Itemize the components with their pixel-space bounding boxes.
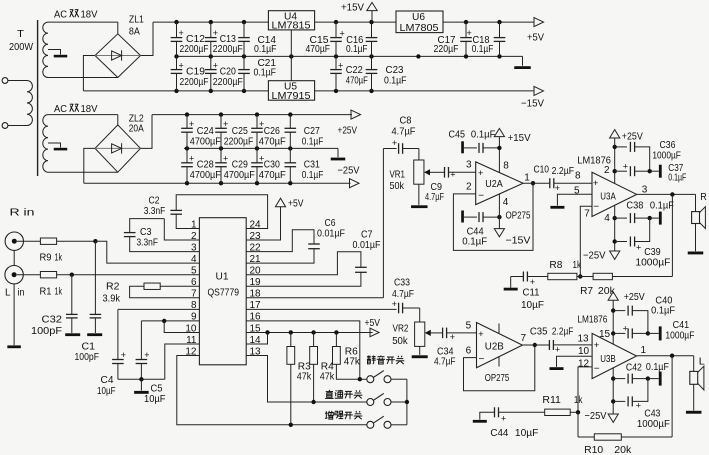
wire U4 out to U6 in — [315, 21, 396, 23]
svg-text:+: + — [340, 29, 345, 39]
node U3B out/R10 — [670, 354, 674, 358]
node top rail / C13 — [209, 20, 213, 24]
node mute/R6/pin16 — [358, 377, 362, 381]
svg-text:50k: 50k — [392, 335, 408, 347]
node C41 out — [646, 331, 650, 335]
svg-text:+5V: +5V — [527, 32, 544, 44]
svg-text:0.1µF: 0.1µF — [471, 129, 496, 141]
svg-text:C45: C45 — [449, 129, 466, 141]
node R4/direct row — [311, 400, 315, 404]
svg-text:0.1µF: 0.1µF — [646, 361, 669, 373]
node top rail / C14 — [242, 20, 246, 24]
power +15V (triangle) — [341, 2, 377, 23]
ground (secondary 2 center tap) — [54, 148, 68, 151]
svg-text:20A: 20A — [129, 123, 144, 135]
node mid2/C26 — [255, 146, 259, 150]
node mid2/C25 — [219, 146, 223, 150]
svg-text:R2: R2 — [106, 281, 120, 293]
svg-text:100pF: 100pF — [75, 351, 100, 363]
ground (C38) — [650, 212, 662, 225]
svg-text:+: + — [189, 119, 194, 129]
svg-text:+5V: +5V — [288, 198, 304, 210]
node pin2/C37 — [613, 169, 617, 173]
capacitor C21 0.1uF — [238, 56, 276, 91]
capacitor C35 2.2uF — [530, 326, 592, 355]
port +5V arrow — [527, 18, 544, 44]
wire U2A out — [523, 182, 550, 184]
svg-text:47k: 47k — [320, 371, 335, 383]
wire R9 to pin 4 — [95, 241, 199, 263]
svg-text:0.1µF: 0.1µF — [302, 136, 324, 148]
node -25/C31 — [288, 181, 292, 185]
node U2A output — [531, 181, 535, 185]
capacitor C30 470uF — [251, 148, 286, 183]
svg-text:0.1µF: 0.1µF — [462, 236, 487, 248]
svg-text:VR1: VR1 — [390, 169, 406, 181]
pin number 4 (U3A) — [604, 213, 610, 224]
potentiometer VR1 50k — [390, 149, 445, 193]
svg-text:−15V: −15V — [521, 98, 544, 110]
power +25V (U3A pin 2) — [610, 130, 643, 184]
ground (VR1) — [411, 184, 428, 208]
svg-text:U2B: U2B — [485, 341, 504, 353]
wire ZL1 - output to bottom rail — [83, 56, 95, 91]
svg-text:4: 4 — [604, 213, 610, 224]
node C37 out — [648, 169, 652, 173]
node pin2/C36 — [613, 145, 617, 149]
capacitor C19 2200uF — [171, 56, 209, 91]
capacitor C20 2200uF — [205, 56, 243, 91]
pin number 5 (U2B) — [466, 321, 472, 332]
svg-text:470µF: 470µF — [259, 169, 286, 181]
pin number 18 (U1 right) — [250, 289, 262, 300]
ground (mid rail 2) — [331, 148, 346, 160]
ground (C37) — [650, 165, 662, 178]
svg-text:4.7µF: 4.7µF — [434, 356, 456, 368]
pin number 13 (U3B) — [578, 334, 590, 345]
svg-text:LM7915: LM7915 — [272, 90, 311, 102]
resistor R11 1k — [542, 394, 583, 416]
svg-text:50k: 50k — [390, 180, 405, 192]
svg-text:AC: AC — [54, 9, 67, 21]
node C44/pin4 — [497, 215, 501, 219]
svg-text:2: 2 — [466, 182, 472, 193]
svg-text:+: + — [478, 168, 484, 179]
svg-text:−25V: −25V — [338, 165, 360, 177]
node C45/pin8 — [497, 146, 501, 150]
pin number 5 (U1 left) — [191, 266, 197, 277]
pin number 12 (U1 left) — [185, 346, 197, 357]
svg-text:1k: 1k — [573, 259, 582, 271]
svg-text:470µF: 470µF — [306, 43, 331, 55]
wire U2B out — [522, 344, 549, 346]
svg-text:LM7815: LM7815 — [272, 20, 311, 32]
label direct switch — [325, 390, 362, 399]
IC U1 QS7779 body — [199, 218, 246, 365]
svg-text:R1: R1 — [40, 286, 52, 298]
label OP275 (U2B) — [485, 372, 510, 384]
ground (input jacks) — [7, 345, 21, 348]
capacitor C34 4.7uF — [434, 328, 477, 368]
svg-text:+25V: +25V — [622, 130, 643, 142]
power +25V (U3B pin 15) — [608, 291, 645, 344]
wire U3A pin7 feedback stub — [580, 206, 592, 276]
svg-text:2.2µF: 2.2µF — [552, 165, 575, 177]
wire U4 gnd to U5 gnd — [290, 30, 292, 81]
ground (U3B pin10) — [550, 367, 564, 370]
svg-text:3: 3 — [642, 185, 648, 196]
capacitor C10 2.2uF — [534, 164, 593, 194]
bridge rectifier ZL1 — [95, 34, 141, 78]
svg-text:470µF: 470µF — [259, 136, 286, 148]
node +15V rail / C16 — [369, 20, 373, 24]
svg-text:7: 7 — [584, 209, 590, 220]
ground (secondary 1 center tap) — [54, 55, 68, 58]
svg-text:+: + — [450, 332, 455, 342]
svg-text:−: − — [478, 191, 484, 202]
svg-text:5: 5 — [466, 321, 472, 332]
svg-text:−: − — [593, 202, 599, 213]
pin number 4 (U2A) — [503, 197, 509, 208]
wire sec1 top to bridge ZL1 — [48, 22, 118, 34]
node mid/C16 — [369, 54, 373, 58]
node mid/C13 — [209, 54, 213, 58]
pin number 1 (U2A) — [524, 173, 530, 184]
svg-text:R8: R8 — [549, 259, 562, 271]
resistor R7 20k — [580, 194, 672, 297]
svg-text:2200µF: 2200µF — [224, 136, 254, 148]
label AC dual 18V (sec 1) — [54, 9, 98, 21]
svg-text:0.1µF: 0.1µF — [650, 200, 674, 212]
capacitor C23 0.1uF — [366, 56, 407, 91]
wire ground mid rail — [177, 55, 523, 57]
pin number 4 (U1 left) — [191, 254, 197, 265]
svg-text:1: 1 — [524, 173, 530, 184]
svg-text:R10: R10 — [584, 444, 603, 455]
node mid/U4-U5 — [289, 54, 293, 58]
svg-text:1000µF: 1000µF — [637, 418, 670, 430]
svg-text:+: + — [179, 28, 184, 38]
svg-text:C42: C42 — [626, 362, 642, 374]
svg-text:+: + — [467, 28, 472, 38]
capacitor C27 0.1uF — [285, 115, 324, 149]
resistor R4 47k — [310, 332, 335, 402]
label mute switch — [367, 355, 404, 364]
wire pin 16 to mute switch — [246, 321, 360, 379]
svg-text:7: 7 — [521, 333, 527, 344]
node mid/U6 — [416, 54, 420, 58]
svg-text:C44: C44 — [490, 427, 508, 439]
capacitor C5 10uF — [136, 321, 166, 405]
label ZL2 20A — [129, 113, 144, 135]
capacitor C33 4.7uF — [392, 277, 420, 314]
svg-text:2200µF: 2200µF — [213, 76, 243, 88]
node top rail / C12 — [174, 20, 178, 24]
svg-text:13: 13 — [578, 334, 590, 345]
wire U3B pin10 to ground — [557, 356, 593, 367]
svg-text:+: + — [213, 60, 218, 70]
node C42 out — [646, 376, 650, 380]
svg-text:470µF: 470µF — [346, 75, 368, 87]
node mid2/C27 — [288, 146, 292, 150]
transformer T secondary 2 winding — [43, 115, 48, 173]
svg-text:−15V: −15V — [506, 234, 531, 246]
svg-text:2.2µF: 2.2µF — [552, 326, 574, 338]
svg-text:−: − — [594, 364, 600, 375]
power -15V (U2A pin 4) — [494, 194, 530, 246]
ground (C4 C5) — [134, 379, 149, 394]
svg-text:8A: 8A — [129, 26, 140, 38]
pin number 7 (U2B) — [521, 333, 527, 344]
pin number 17 (U1 right) — [250, 300, 262, 311]
capacitor C40 0.1uF — [613, 295, 675, 334]
svg-text:+: + — [623, 162, 628, 172]
capacitor C31 0.1uF — [285, 148, 324, 183]
svg-text:0.1µF: 0.1µF — [668, 171, 686, 183]
pin number 8 (U2A) — [503, 161, 509, 172]
svg-text:U2A: U2A — [485, 178, 503, 190]
capacitor C22 470uF — [330, 56, 368, 91]
svg-text:3.3nF: 3.3nF — [137, 237, 159, 249]
node pin4b/C42 — [611, 376, 615, 380]
svg-text:+: + — [623, 324, 628, 334]
label OP275 (U2A) — [506, 210, 531, 222]
wire -V unregulated rail (bottom) — [83, 90, 268, 92]
svg-text:R7: R7 — [580, 285, 593, 297]
pin number 7 (U3A) — [584, 209, 590, 220]
svg-text:0.01µF: 0.01µF — [317, 228, 345, 240]
svg-text:1000µF: 1000µF — [635, 257, 670, 269]
node pin4b/C43 — [611, 399, 615, 403]
svg-text:L: L — [5, 287, 11, 299]
capacitor C28 4700uF — [181, 148, 221, 183]
pin number 8 (U3A) — [575, 171, 581, 182]
capacitor C44 10uF — [490, 407, 544, 439]
wire C3 to pin 2 — [164, 219, 199, 240]
svg-text:+: + — [223, 119, 228, 129]
svg-text:+: + — [555, 345, 560, 355]
label LM1876 (U3B) — [577, 314, 607, 326]
node -25/C29 — [219, 181, 223, 185]
svg-text:+: + — [530, 277, 535, 287]
pin number 5 (U3A) — [574, 186, 580, 197]
ground (C32) — [65, 333, 80, 336]
svg-text:T: T — [17, 28, 25, 40]
node R3/boost row — [289, 423, 293, 427]
ground (C11) — [504, 277, 518, 291]
ground (C44 10uF) — [473, 412, 495, 422]
pin number 9 (U1 left) — [191, 312, 197, 323]
svg-text:4.7µF: 4.7µF — [392, 288, 414, 300]
node -25/C30 — [255, 181, 259, 185]
pin number 12 (U3B) — [578, 359, 590, 370]
node -15V/C23 — [369, 89, 373, 93]
switch mute switch — [367, 371, 407, 383]
wire pin 15 +5V rail — [246, 331, 372, 333]
regulator U4 LM7815 — [268, 11, 314, 32]
svg-text:1000µF: 1000µF — [665, 329, 694, 341]
node +25/C25 — [219, 112, 223, 116]
svg-text:−25V: −25V — [583, 249, 606, 261]
capacitor C17 220uF — [434, 22, 472, 56]
svg-text:47k: 47k — [344, 356, 361, 368]
svg-text:3.3nF: 3.3nF — [144, 205, 166, 217]
wire sec2 top to bridge ZL2 — [48, 115, 118, 125]
switch direct switch — [367, 393, 407, 405]
capacitor C43 1000uF — [613, 379, 670, 430]
node bot/C19 — [174, 89, 178, 93]
node rail/R6 — [334, 330, 338, 334]
svg-text:20k: 20k — [598, 285, 616, 297]
node rail/pin14 — [265, 330, 269, 334]
op-amp U2B — [477, 323, 523, 368]
pin number 11 (U1 left) — [186, 335, 197, 346]
capacitor C12 2200uF — [171, 22, 209, 56]
resistor R3 47k — [287, 332, 312, 424]
svg-text:+: + — [189, 154, 194, 164]
svg-text:10µF: 10µF — [144, 393, 166, 405]
speaker L — [686, 356, 705, 414]
wire pin 10 jog — [164, 321, 199, 333]
svg-text:+: + — [121, 350, 126, 360]
pin number 3 (U3A) — [642, 185, 648, 196]
svg-text:C32: C32 — [42, 314, 63, 326]
wire +V unregulated rail (top) — [153, 21, 268, 23]
svg-text:R in: R in — [10, 207, 35, 219]
svg-text:LM1876: LM1876 — [577, 314, 607, 326]
svg-text:in: in — [18, 287, 25, 299]
node mid/C12 — [174, 54, 178, 58]
wire switch common bus — [406, 379, 408, 425]
svg-text:2200µF: 2200µF — [213, 43, 243, 55]
resistor R1 1k — [17, 272, 200, 298]
resistor R10 20k — [578, 356, 672, 455]
svg-text:18V: 18V — [81, 9, 98, 21]
svg-text:1000µF: 1000µF — [652, 150, 681, 162]
node +25/C27 — [288, 112, 292, 116]
wire U2A feedback — [453, 183, 533, 250]
node R8/R7/pin7 — [577, 274, 593, 278]
amplifier U3A LM1876 — [592, 172, 637, 216]
svg-text:8: 8 — [503, 161, 509, 172]
node switch bus — [405, 400, 409, 404]
wire sec1 bottom to bridge ZL1 — [48, 77, 118, 79]
node +25/C26 — [255, 112, 259, 116]
wire pin 14 to +5V rail — [246, 332, 267, 344]
pin number 2 (U3A) — [604, 165, 610, 176]
label boost switch — [325, 411, 362, 420]
svg-text:L: L — [699, 356, 705, 368]
svg-text:0.1µF: 0.1µF — [346, 43, 368, 55]
svg-text:U1: U1 — [216, 271, 229, 283]
svg-text:+15V: +15V — [341, 2, 364, 14]
transformer T primary terminal (bottom) — [2, 123, 27, 129]
svg-text:200W: 200W — [9, 41, 33, 53]
wire U3B output — [636, 355, 693, 357]
connector L in jack — [5, 266, 25, 299]
svg-text:3: 3 — [466, 160, 472, 171]
power +5V (U1 pin 23) — [246, 198, 303, 241]
ground (C41) — [648, 326, 662, 340]
svg-text:4.7µF: 4.7µF — [392, 126, 416, 138]
wire ZL2 + output to +25V rail — [141, 115, 153, 149]
svg-text:0.01µF: 0.01µF — [353, 239, 381, 251]
wire U3B pin12 feedback stub — [578, 367, 592, 412]
resistor R2 3.9k — [103, 281, 200, 305]
node mid/C17 — [464, 54, 468, 58]
node -15V/C22 — [334, 89, 338, 93]
switch boost switch — [367, 416, 407, 428]
svg-text:−: − — [479, 354, 485, 365]
ground (U3A pin5) — [550, 206, 564, 209]
svg-text:1k: 1k — [574, 394, 583, 406]
svg-text:+: + — [501, 414, 506, 424]
svg-text:4700µF: 4700µF — [224, 169, 255, 181]
svg-text:+: + — [594, 340, 600, 351]
pin number 3 (U2A) — [466, 160, 472, 171]
pin number 6 (U2B) — [466, 346, 472, 357]
wire L jack shield to ground — [13, 284, 15, 345]
svg-text:2: 2 — [604, 165, 610, 176]
power -25V (U3A pin 4) — [583, 205, 620, 261]
pin number 10 (U1 left) — [185, 323, 197, 334]
capacitor C8 4.7uF — [383, 115, 419, 154]
svg-text:20k: 20k — [614, 444, 632, 455]
svg-text:+: + — [636, 243, 641, 253]
capacitor C26 470uF — [251, 115, 286, 149]
svg-text:1k: 1k — [55, 286, 63, 298]
node mid/C18 — [497, 54, 501, 58]
bridge rectifier ZL2 — [95, 125, 141, 172]
pin number 10 (U3B) — [578, 346, 590, 357]
svg-text:U3B: U3B — [600, 353, 616, 365]
capacitor C37 0.1uF — [615, 162, 687, 184]
svg-text:+5V: +5V — [365, 317, 381, 329]
connector R in jack — [5, 207, 35, 251]
label ZL1 8A — [129, 14, 144, 38]
op-amp U2A — [476, 162, 523, 205]
node +5V rail / C18 — [497, 20, 501, 24]
node pin9/pin10 tie — [162, 319, 166, 323]
U2B power stub bottom — [498, 357, 500, 367]
svg-text:10µF: 10µF — [97, 385, 116, 397]
pin number 2 (U2A) — [466, 182, 472, 193]
svg-text:C11: C11 — [523, 287, 540, 299]
capacitor C38 0.1uF — [615, 200, 674, 224]
svg-text:+: + — [555, 183, 560, 193]
svg-text:+: + — [392, 138, 397, 148]
node bot/C21 — [242, 89, 246, 93]
svg-text:1k: 1k — [55, 252, 63, 264]
svg-text:ZL1: ZL1 — [129, 14, 144, 26]
resistor R9 1k — [17, 238, 96, 264]
svg-text:OP275: OP275 — [506, 210, 531, 222]
node pin15/C41 — [611, 331, 615, 335]
pin number 2 (U1 left) — [191, 231, 197, 242]
node C5 bottom — [139, 377, 143, 381]
transformer T core — [37, 20, 39, 176]
capacitor C25 2200uF — [215, 115, 253, 149]
svg-text:R11: R11 — [542, 394, 561, 406]
wire U2B feedback — [464, 345, 535, 391]
regulator U5 LM7915 — [268, 81, 314, 102]
node mid/C14 — [242, 54, 246, 58]
port +5V arrow (pin15) — [365, 317, 381, 337]
capacitor C45 0.1uF — [449, 129, 500, 154]
secondary 2 center tap wire — [48, 143, 61, 148]
pin number 1 (U3B) — [641, 345, 647, 356]
capacitor C1 100pF — [75, 241, 102, 363]
